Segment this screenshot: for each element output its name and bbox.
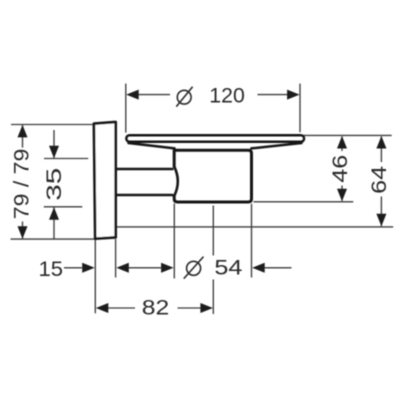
svg-text:15: 15	[39, 258, 64, 281]
svg-text:54: 54	[214, 257, 242, 280]
svg-text:82: 82	[142, 297, 170, 320]
svg-text:35: 35	[43, 168, 66, 201]
svg-text:79 / 79: 79 / 79	[10, 149, 33, 220]
svg-text:64: 64	[368, 166, 391, 194]
svg-text:120: 120	[209, 85, 245, 108]
svg-text:46: 46	[329, 155, 352, 183]
